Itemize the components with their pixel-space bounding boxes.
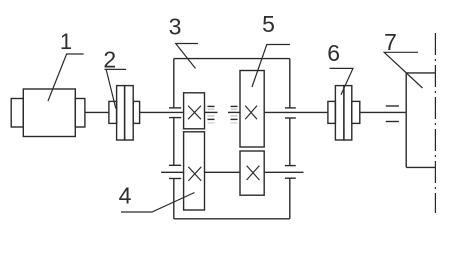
wire: countershaft left stub: [161, 171, 184, 173]
wire: shaft coupling 2 to gearbox input: [140, 111, 184, 113]
bearing at output shaft end: [231, 106, 238, 123]
gear 4 on countershaft: [184, 132, 205, 210]
coupling 2: [109, 86, 140, 140]
bearing at input shaft end: [208, 106, 215, 123]
svg-text:4: 4: [119, 183, 132, 209]
svg-text:3: 3: [169, 14, 182, 40]
wire: shaft motor to coupling 2: [85, 111, 109, 113]
leader line 6: [330, 68, 354, 94]
bearing right wall countershaft: [285, 166, 296, 179]
svg-text:5: 5: [262, 11, 275, 37]
motor 1: [11, 89, 85, 137]
svg-text:6: 6: [327, 40, 340, 66]
svg-text:2: 2: [103, 47, 116, 73]
leader line 5: [252, 45, 290, 88]
leader line 1: [48, 54, 84, 101]
leader line 2: [105, 69, 127, 108]
svg-text:1: 1: [60, 29, 72, 54]
gear 5 on output shaft, second gear pair: [240, 71, 264, 148]
bearing left wall input shaft: [169, 108, 181, 118]
wire: countershaft between gears: [205, 171, 241, 173]
wire: shaft coupling 6 to machine 7: [360, 111, 406, 113]
bearing left wall countershaft: [169, 165, 181, 178]
leader line 3: [176, 44, 198, 69]
wire: shaft gearbox to coupling 6: [264, 111, 328, 113]
wire: input shaft end stub: [205, 111, 218, 113]
machine 7 driven drum half section: [406, 73, 435, 167]
gearbox housing 3: [174, 59, 290, 219]
wire: countershaft right stub: [264, 171, 303, 173]
pinion on input shaft, first gear pair: [184, 93, 205, 129]
wire: output shaft end stub: [228, 111, 240, 113]
coupling 6: [328, 86, 360, 140]
leader line 4: [121, 193, 195, 213]
centerline of drum 7: [434, 33, 436, 213]
bearing of machine 7 shaft: [386, 106, 399, 122]
gear on countershaft, second gear pair: [240, 151, 264, 195]
svg-text:7: 7: [384, 29, 397, 55]
bearing right wall output shaft: [285, 108, 296, 118]
leader line 7: [384, 52, 422, 88]
